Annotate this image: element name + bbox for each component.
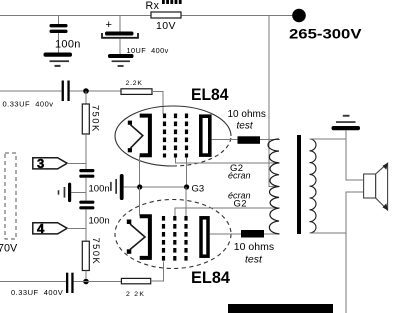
grid G2 [173, 216, 176, 262]
svg-text:4: 4 [37, 221, 45, 236]
node dot HT [292, 9, 306, 23]
plate lead [212, 139, 238, 141]
filament [128, 121, 132, 125]
grid G3 [185, 114, 188, 158]
svg-text:750K: 750K [90, 105, 100, 133]
resistor 2.2K (bottom) [121, 278, 150, 283]
G3 lead [185, 187, 187, 216]
node cathode top [137, 184, 142, 189]
tube EL84 top : envelope [115, 106, 231, 136]
svg-text:test: test [237, 120, 254, 131]
capacitor 0.33UF (top) [62, 81, 64, 102]
wire speaker bottom [346, 192, 364, 313]
svg-text:EL84: EL84 [191, 85, 229, 104]
wire grid rail (bottom) [0, 281, 66, 283]
capacitor 100n (coupling upper) [79, 169, 94, 172]
svg-text:3: 3 [37, 156, 44, 171]
svg-text:écran: écran [228, 171, 251, 181]
cathode lead [139, 187, 141, 216]
G2 lead [176, 158, 281, 164]
svg-text:10 ohms: 10 ohms [228, 109, 266, 120]
svg-text:2.2K: 2.2K [126, 80, 143, 87]
capacitor 100n (coupling lower) [79, 201, 94, 204]
plate lead [210, 233, 241, 235]
ground (upside down, secondary) [332, 126, 361, 130]
anode plate [201, 218, 208, 256]
resistor 750K (bottom) [82, 241, 89, 270]
anode plate [201, 116, 210, 155]
wire secondary to speaker top [346, 139, 364, 180]
ground (under 100n) [44, 53, 73, 57]
grid G1 [162, 216, 165, 262]
node B [83, 279, 89, 285]
wire secondary bottom [310, 232, 347, 234]
wire secondary top [310, 131, 346, 140]
ground (rotated, at cap junction) [71, 191, 86, 193]
svg-text:70V: 70V [0, 243, 18, 255]
wire to G1 top tube [152, 92, 163, 115]
svg-text:Rx: Rx [146, 0, 160, 12]
black bar (bottom transparency artifact) [228, 304, 333, 313]
G3 lead [186, 158, 188, 188]
wire HT rail [0, 15, 293, 17]
svg-text:0.33UF 400v: 0.33UF 400v [3, 100, 54, 109]
svg-text:test: test [245, 254, 263, 266]
svg-text:100n: 100n [55, 39, 81, 51]
grid G3 [184, 216, 187, 262]
wire [67, 227, 86, 229]
svg-text:265-300V: 265-300V [289, 26, 362, 42]
transformer core [297, 135, 301, 234]
grid G1 [163, 114, 166, 158]
svg-text:750K: 750K [91, 238, 101, 266]
ground (rotated, cathode rail) [120, 174, 124, 200]
capacitor 100n (top left) [58, 16, 60, 25]
svg-text:100n: 100n [89, 184, 110, 195]
wire HT drop [269, 16, 280, 187]
svg-text:10V: 10V [156, 20, 176, 32]
cathode [140, 216, 150, 258]
wire grid rail (top) [0, 90, 62, 92]
cathode lead [139, 155, 141, 187]
cathode [140, 116, 150, 156]
resistor 2.2K (top) [121, 89, 152, 95]
svg-text:0.33UF 400V: 0.33UF 400V [11, 288, 63, 297]
svg-text:2 2K: 2 2K [126, 291, 145, 298]
ground (under 10UF) [108, 54, 134, 58]
node G3 [184, 184, 189, 189]
wire to G1 bottom tube [151, 262, 164, 282]
node A [83, 88, 89, 94]
grid G2 [174, 114, 177, 158]
svg-text:+: + [106, 19, 112, 31]
tube EL84 bottom : envelope (dashed) [115, 200, 231, 269]
wire [85, 178, 87, 201]
wire [85, 209, 87, 241]
transformer secondary winding [310, 139, 317, 233]
cathode rail wire [124, 186, 187, 188]
svg-text:G3: G3 [192, 184, 205, 195]
svg-text:100n: 100n [89, 216, 110, 227]
capacitor 0.33UF (bottom) [66, 273, 68, 293]
tag input 4 [33, 223, 67, 234]
svg-text:10 ohms: 10 ohms [234, 241, 274, 253]
resistor 10V [151, 12, 181, 18]
svg-text:EL84: EL84 [191, 268, 231, 287]
svg-text:10UF 400v: 10UF 400v [127, 46, 169, 55]
resistor Rx (hatched, cut at top edge) [162, 0, 182, 4]
G2 lead [175, 208, 280, 216]
wire [67, 162, 86, 164]
speaker [364, 174, 376, 198]
resistor 750K (top) [85, 91, 87, 104]
resistor 10 ohms test (top) [238, 136, 261, 144]
tag input 3 [33, 158, 67, 169]
transformer primary winding [268, 139, 279, 234]
wire [70, 90, 121, 92]
resistor 10 ohms test (bottom) [241, 230, 264, 238]
capacitor 10UF (electrolytic) [119, 16, 121, 32]
filament [127, 220, 132, 225]
dashed box (driver stage, cut at left) [5, 153, 16, 239]
